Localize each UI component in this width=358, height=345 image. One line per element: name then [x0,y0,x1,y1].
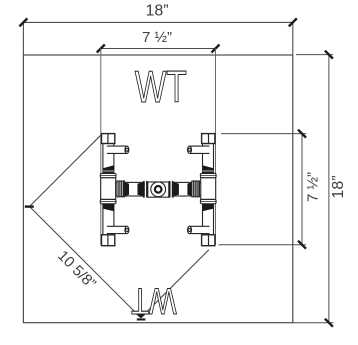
svg-text:18”: 18” [330,175,347,198]
right lower ring nut [200,199,216,203]
left lower ring nut [100,199,116,203]
right riser pipe [203,144,214,235]
tick right 7.5 bottom [298,241,306,249]
svg-text:7 ½”: 7 ½” [304,172,321,202]
inner box left edge [100,49,102,246]
tick top dim left [19,18,27,26]
valve body block [148,182,169,197]
svg-text:WT: WT [131,280,176,321]
dimension line 7 1/2 inch top (inner box top edge) [101,48,216,50]
right lower shaded band [203,204,214,211]
valve outer circle [151,182,166,197]
left tee body [101,178,116,200]
arrow triangle at bottom vertex [135,313,148,318]
left top outlet stub [107,146,129,153]
extension line right 7.5 bottom [219,244,307,246]
panel outline (18 x 18 square) [23,55,292,323]
right tee body [201,178,216,200]
left coupling ridges [117,181,125,197]
extension line top right [292,22,294,55]
right bottom outlet stub [188,226,210,233]
extension line right 18 top [296,54,333,56]
label WT top (outline text) [135,62,187,112]
left riser pipe [103,144,114,235]
tick dash at left vertex [25,205,34,207]
extension line top left [22,22,24,55]
extension line right 7.5 top [221,133,306,135]
svg-text:18”: 18” [145,3,168,20]
svg-text:7 ½”: 7 ½” [142,29,172,46]
valve right flange [169,181,174,198]
right upper shaded band [203,165,214,173]
tick right 18 bottom [325,319,333,327]
dimension line 18 inch right [328,55,330,323]
right tee branch bump [199,183,201,195]
dimension line 18 inch top [23,21,292,23]
right top cap fitting [202,134,215,144]
right coupling ridges [192,181,200,197]
tick top dim right [289,18,297,26]
svg-text:WT: WT [135,62,187,112]
left lower shaded band [103,204,114,211]
diagonal extension upper left [30,135,101,206]
left upper ring nut [100,173,116,177]
left pipe segment [125,182,144,196]
right upper ring nut [200,173,216,177]
left bottom cap fitting [102,235,115,246]
tick dash at bottom vertex [137,318,146,320]
tick right 18 top [325,51,333,59]
tick 7.5 dim left [97,45,105,53]
valve left flange [143,181,148,198]
valve stem ring [155,186,162,193]
tick right 7.5 top [298,130,306,138]
right bottom cap fitting [202,235,215,246]
tick 7.5 dim right [212,45,220,53]
diagonal extension lower right [141,250,209,318]
left bottom outlet stub [107,226,129,233]
right pipe segment [173,182,192,196]
extension line right 18 bottom [293,322,334,324]
inner box right edge [215,49,217,245]
left tee branch bump [116,183,118,195]
diagonal dimension line 10 5/8 [30,207,141,318]
left top cap fitting [102,134,115,144]
dimension line 7 1/2 inch right [301,134,303,245]
right top outlet stub [188,146,210,153]
left upper shaded band [103,165,114,173]
label WT bottom (rotated 180 outline text) [131,280,176,321]
